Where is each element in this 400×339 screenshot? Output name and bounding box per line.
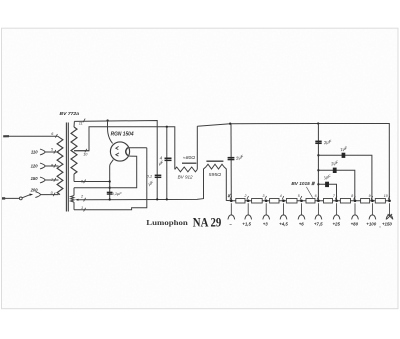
wire anode crescent lead [129, 147, 147, 149]
svg-text:11: 11 [79, 121, 83, 125]
terminal tick 5 chain [298, 194, 302, 200]
node chain terminal 9 [371, 199, 374, 202]
svg-text:+100: +100 [366, 221, 376, 226]
label R2 595 Ohm [209, 172, 222, 177]
node chain terminal 5 [300, 199, 303, 202]
svg-text:3: 3 [262, 194, 264, 198]
label 120 [31, 163, 39, 168]
label 150 [31, 176, 39, 181]
node chain terminal 10 [388, 199, 391, 202]
label C6 1uF [340, 145, 349, 152]
node anode junction [106, 119, 108, 121]
terminal tick 2 [80, 194, 86, 201]
svg-text:5: 5 [298, 194, 300, 198]
socket output +7,5 [315, 203, 322, 219]
svg-text:BV 1015 Ⅲ: BV 1015 Ⅲ [291, 181, 315, 186]
label R1 80 Ohm [183, 155, 196, 160]
svg-text:≈80Ω: ≈80Ω [183, 155, 196, 160]
socket output +25 [333, 203, 340, 219]
title Lumophon [146, 218, 188, 227]
wire rail B (tap 10 to R1) [74, 127, 175, 170]
svg-text:NA 29: NA 29 [193, 215, 222, 229]
capacitor C2 4uF line [166, 127, 168, 200]
svg-text:4: 4 [280, 194, 282, 198]
terminal tick 5 [51, 147, 56, 153]
terminal tick 1 [81, 206, 86, 212]
transformer core [66, 123, 68, 212]
title NA 29 [193, 215, 222, 229]
node bus junction c [317, 183, 319, 185]
capacitor C4 2uF plates [228, 158, 235, 160]
svg-text:+150: +150 [382, 221, 392, 226]
label output +150 [382, 221, 392, 226]
svg-text:+1,5: +1,5 [242, 221, 251, 226]
wire heater row to tube right pin [74, 156, 137, 188]
svg-text:2: 2 [243, 194, 246, 198]
capacitor C6 1uF box [342, 153, 346, 158]
wire rail A (terminal 11 to C1) [74, 121, 157, 200]
svg-text:110: 110 [31, 149, 38, 154]
terminal tick 10 chain [384, 194, 390, 200]
node C2 bottom junction [166, 198, 168, 200]
svg-text:0,1: 0,1 [147, 174, 153, 179]
capacitor C3 0,1uF plates [107, 192, 113, 194]
terminal tick 3 chain [262, 194, 266, 200]
terminal tick 6 [51, 132, 57, 138]
node chain terminal 8 [354, 199, 357, 202]
switch S1 (mains) [19, 194, 33, 200]
label output &#8211; [229, 221, 232, 226]
resistor R1 approx 80 Ohm [175, 163, 198, 172]
leader line BV 1015 [306, 187, 312, 198]
socket output +3 [263, 203, 270, 219]
label C3 0,1uF [112, 191, 123, 196]
svg-text:+4,5: +4,5 [279, 221, 288, 226]
node bus junction b [317, 169, 319, 171]
tube V1 label RGN 1504 [111, 131, 134, 137]
wire branch to terminal 7 [318, 184, 336, 201]
label C2 uF [158, 159, 165, 166]
svg-text:10: 10 [384, 194, 388, 198]
wire divider chain [231, 200, 389, 202]
svg-text:6: 6 [315, 194, 317, 198]
label C8 1uF [323, 173, 332, 180]
label output +25 [332, 221, 340, 226]
transformer heater winding [71, 188, 74, 210]
socket output +150 [386, 203, 393, 219]
transformer T1 label BV 772a [60, 111, 80, 117]
svg-text:+3: +3 [263, 221, 269, 226]
socket output &#8211; [228, 203, 235, 219]
node chain terminal 3 [265, 199, 268, 202]
label C2 4 [160, 155, 163, 160]
node filament-heater junction [109, 187, 111, 189]
terminal tick 1 chain-left [228, 194, 231, 198]
socket output +6 [298, 203, 305, 219]
terminal tick 0 [51, 191, 56, 196]
capacitor C5 2uF plates [315, 141, 321, 143]
node C1 bottom junction [156, 198, 158, 200]
wire terminal 9 row [74, 181, 110, 183]
terminal tick 9 [81, 179, 86, 183]
label output +7,5 [314, 221, 323, 226]
node chain terminal 2 [247, 199, 250, 202]
capacitor C1 0,1uF plates [155, 175, 162, 177]
label output +6 [299, 221, 305, 226]
label output +4,5 [279, 221, 288, 226]
plug jaw 120 tap [40, 163, 59, 169]
terminal tick 7 [51, 178, 56, 182]
resistors divider chain boxes [236, 199, 386, 204]
label R1 BV 912 [178, 174, 194, 179]
label 110 [31, 149, 38, 154]
node B+ C4 junction [229, 123, 231, 125]
transformer T1 primary winding [57, 136, 63, 194]
node C3 bottom junction [109, 198, 111, 200]
svg-text:1: 1 [228, 194, 230, 198]
wire bottom rail (terminal 2 tap) [78, 167, 206, 200]
terminal tick 4 chain [280, 194, 284, 200]
label output +100 [366, 221, 376, 226]
socket output +1,5 [245, 203, 252, 219]
transformer HV secondary winding [71, 121, 77, 181]
terminal tick 10 [83, 149, 88, 157]
svg-text:+7,5: +7,5 [314, 221, 323, 226]
plug jaw 150 tap [40, 177, 59, 183]
socket output +4,5 [280, 203, 287, 219]
label 200 [30, 188, 39, 193]
terminal tick 11 [79, 119, 85, 126]
resistor R2 595 Ohm [206, 161, 224, 169]
capacitor C2 4uF plates [165, 158, 172, 160]
svg-text:595Ω: 595Ω [209, 172, 222, 177]
label output +3 [263, 221, 269, 226]
svg-text:BV 912: BV 912 [178, 174, 194, 179]
node filament-9 junction [109, 180, 111, 182]
svg-text:120: 120 [31, 163, 39, 168]
label C7 2uF [329, 159, 339, 166]
wire bus (B+ to terminal 6) [317, 124, 319, 201]
wire tube filament left pin [110, 160, 114, 200]
label C1 uF [147, 180, 154, 187]
plug jaw 110 tap [40, 149, 59, 155]
capacitor C7 2uF box [333, 168, 337, 173]
label C1 0,1 [147, 174, 153, 179]
wire R1 right lead [196, 126, 198, 169]
label output +80 [351, 221, 359, 226]
terminal tick 7 chain [333, 194, 337, 200]
terminal tick 8 chain [351, 194, 355, 200]
svg-text:RGN 1504: RGN 1504 [111, 131, 134, 137]
wire mains line L2 (bottom) [2, 197, 19, 199]
node bus junction a [317, 154, 319, 156]
wire R2 to chain terminal 1 [224, 167, 232, 201]
wire B+ rail [197, 124, 389, 201]
terminal tick 1 chain [228, 194, 232, 200]
wire anode lead to tube [107, 121, 112, 144]
tube V1 envelope [110, 142, 129, 161]
tube V1 filament mark upper [116, 146, 119, 149]
wire mains line L1 (top) [3, 135, 58, 137]
svg-text:+25: +25 [332, 221, 340, 226]
tube V1 filament mark lower [116, 153, 119, 156]
svg-text:150: 150 [31, 176, 39, 181]
svg-text:1: 1 [81, 206, 83, 210]
node chain terminal 4 [282, 199, 285, 202]
capacitor C4 2uF line [230, 124, 232, 201]
label BV 1015 III [291, 181, 315, 186]
svg-text:BV 772a: BV 772a [60, 111, 80, 117]
node chain terminal 7 [335, 199, 338, 202]
svg-text:+80: +80 [351, 221, 359, 226]
tube V1 anode crescent [126, 148, 128, 156]
tap arrow terminal 2 [75, 199, 79, 201]
svg-text:0,1µF: 0,1µF [112, 191, 123, 196]
node chain terminal 6 [317, 199, 320, 202]
label C4 2uF [234, 154, 244, 161]
svg-text:+6: +6 [299, 221, 305, 226]
plug jaw 200 tap [35, 192, 58, 198]
socket output +100 [369, 203, 376, 219]
node B+ bus junction [317, 122, 319, 124]
wire branch to terminal 8 [318, 170, 354, 201]
svg-text:8: 8 [351, 194, 353, 198]
svg-text:Lumophon: Lumophon [146, 218, 188, 227]
svg-text:9: 9 [369, 194, 371, 198]
capacitor C8 1uF box [325, 182, 329, 187]
node 4uF junction [166, 126, 168, 128]
wire tap 10 [74, 150, 89, 152]
mark quote before +150 [379, 223, 382, 228]
terminal tick 8 [51, 163, 56, 167]
label C5 2uF [322, 139, 332, 146]
terminal tick 6 chain [315, 194, 319, 200]
socket output +80 [352, 203, 359, 219]
label output +1,5 [242, 221, 251, 226]
wire branch to terminal 9 [318, 155, 372, 201]
terminal tick 2 chain [243, 194, 248, 200]
node chain terminal 1 [230, 199, 233, 202]
terminal tick 9 chain [369, 194, 373, 200]
wire crescent return to terminal 1 [74, 148, 147, 210]
